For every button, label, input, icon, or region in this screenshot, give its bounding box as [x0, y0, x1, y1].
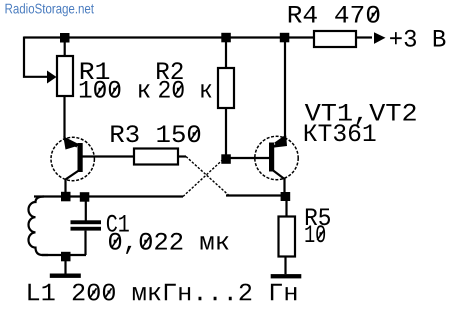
node D (rail / R4 / VT2 emitter junction) — [280, 33, 290, 43]
label +3 В — [390, 30, 445, 47]
wire C1 bottom lead — [84, 231, 86, 255]
wire node H to R5 — [285, 200, 287, 217]
label 10 — [305, 225, 325, 242]
wire R1 bottom to VT1 emitter — [65, 96, 78, 147]
label 100 к — [80, 81, 150, 98]
R1 wiper arrow — [47, 71, 57, 84]
wire R2 top lead — [225, 40, 227, 68]
label КТ361 — [305, 124, 376, 141]
ground (right) — [271, 274, 302, 278]
label VT1,VT2 — [305, 104, 416, 125]
resistor R1 (variable, 100k) — [57, 56, 73, 96]
wire VT1 collector lead — [66, 170, 80, 193]
wire R4 to supply arrow — [356, 36, 372, 38]
node G (L1 / C1 bottom / ground junction) — [61, 252, 71, 261]
resistor R4 (470) — [314, 31, 356, 47]
wire node B to VT2 base — [230, 157, 269, 159]
wire ground lead left — [64, 261, 66, 274]
node A (rail / R1 top junction) — [60, 33, 70, 43]
label R2 — [157, 62, 183, 79]
wire rail to R4 — [289, 36, 314, 38]
resistor R5 (10) — [279, 217, 296, 257]
slashed-zero marks on value labels — [90, 11, 377, 299]
wire VT2 collector lead — [273, 170, 285, 193]
transistor VT1 body circle — [51, 137, 94, 180]
transistor VT2 base bar — [269, 143, 274, 172]
capacitor C1 bottom plate — [71, 227, 102, 231]
label 20 к — [159, 81, 211, 98]
wire C1 top lead — [85, 200, 87, 221]
wire R1 top lead — [64, 38, 66, 57]
inductor L1 coil — [28, 197, 48, 256]
ground (left) — [50, 274, 81, 278]
node E (VT1 collector / tank junction) — [61, 192, 71, 202]
label C1 — [107, 215, 129, 232]
node C (rail / R2 top junction) — [221, 33, 231, 43]
wire R3 right diagonal down to bottom-right run — [178, 155, 186, 157]
supply arrow head — [374, 32, 386, 44]
node H (VT2 collector / R5 junction) — [281, 192, 291, 201]
wire top supply rail — [24, 36, 285, 38]
wire R1 wiper loop (left corner down and right to wiper arrow) — [24, 37, 48, 77]
site watermark RadioStorage.net — [6, 3, 94, 16]
resistor R2 (20k) — [218, 68, 234, 108]
wire tank bottom run — [42, 254, 86, 256]
transistor VT1 base bar — [78, 143, 83, 172]
transistor VT2 body circle — [255, 136, 298, 179]
node F (C1 top junction) — [80, 192, 90, 202]
transistor VT2 emitter arrow — [271, 136, 288, 149]
wire VT1 base lead to R3 — [82, 155, 134, 157]
label L1 200 мкГн...2 Гн — [28, 284, 296, 301]
wire R5 bottom lead — [284, 257, 286, 275]
resistor R3 (150) — [134, 149, 178, 165]
label 0,022 мк — [109, 233, 229, 254]
wire VT2 emitter from rail — [275, 42, 285, 144]
label R1 — [81, 63, 109, 80]
node B (R2 bottom / VT2 base junction) — [221, 154, 231, 164]
wire R2 bottom lead — [225, 108, 227, 155]
transistor VT1 emitter arrow — [63, 136, 80, 149]
label R4 470 — [289, 6, 380, 23]
label R5 — [306, 209, 330, 226]
wire bottom-left run diagonal up to VT2 base node — [34, 195, 183, 197]
capacitor C1 top plate — [71, 220, 102, 224]
label R3 150 — [111, 125, 200, 142]
